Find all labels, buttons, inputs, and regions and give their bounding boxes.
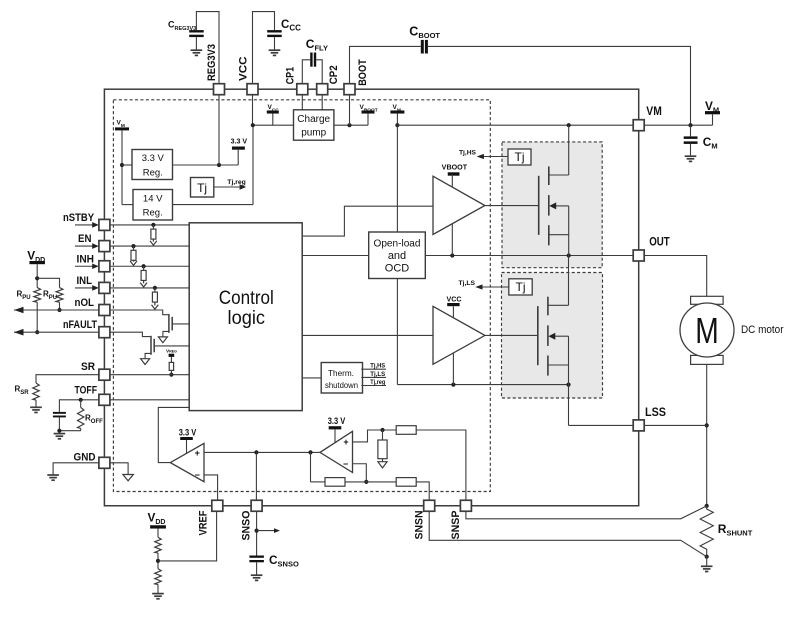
svg-text:VM: VM bbox=[646, 105, 662, 118]
svg-text:Reg.: Reg. bbox=[143, 168, 163, 179]
svg-text:Tj,LS: Tj,LS bbox=[459, 280, 476, 287]
svg-text:Tj: Tj bbox=[197, 181, 207, 195]
svg-text:SNSP: SNSP bbox=[450, 510, 462, 540]
svg-text:OCD: OCD bbox=[385, 263, 410, 275]
svg-text:3.3 V: 3.3 V bbox=[179, 427, 197, 437]
svg-text:M: M bbox=[695, 310, 719, 351]
svg-text:GND: GND bbox=[74, 451, 96, 463]
svg-text:Charge: Charge bbox=[297, 114, 330, 125]
svg-text:pump: pump bbox=[301, 128, 326, 139]
svg-text:Tj,HS: Tj,HS bbox=[370, 363, 385, 370]
svg-text:+: + bbox=[343, 437, 348, 447]
svg-text:VCC: VCC bbox=[237, 57, 249, 81]
svg-text:LSS: LSS bbox=[645, 406, 666, 419]
svg-text:CP1: CP1 bbox=[285, 67, 297, 85]
svg-text:Tj: Tj bbox=[516, 280, 526, 294]
svg-text:nOL: nOL bbox=[75, 297, 95, 309]
svg-text:REG3V3: REG3V3 bbox=[206, 44, 218, 81]
svg-text:Control: Control bbox=[219, 288, 274, 309]
svg-text:VCC: VCC bbox=[447, 297, 462, 304]
svg-text:SR: SR bbox=[81, 361, 95, 373]
svg-text:−: − bbox=[195, 470, 200, 480]
svg-text:3.3 V: 3.3 V bbox=[231, 137, 248, 146]
svg-text:14 V: 14 V bbox=[143, 194, 163, 205]
svg-text:INL: INL bbox=[77, 275, 93, 287]
svg-text:TOFF: TOFF bbox=[75, 385, 98, 397]
svg-text:nFAULT: nFAULT bbox=[63, 319, 97, 331]
svg-text:3.3 V: 3.3 V bbox=[142, 153, 165, 164]
svg-text:INH: INH bbox=[77, 253, 95, 265]
svg-text:+: + bbox=[195, 448, 200, 458]
svg-text:BOOT: BOOT bbox=[357, 59, 369, 86]
svg-text:Tj,LS: Tj,LS bbox=[370, 371, 385, 378]
svg-text:and: and bbox=[388, 250, 406, 262]
svg-text:EN: EN bbox=[78, 233, 92, 245]
svg-text:shutdown: shutdown bbox=[325, 381, 358, 390]
svg-text:Tj,HS: Tj,HS bbox=[459, 149, 476, 156]
svg-text:CP2: CP2 bbox=[328, 65, 340, 84]
svg-text:−: − bbox=[343, 459, 348, 469]
svg-text:Therm.: Therm. bbox=[328, 369, 354, 378]
svg-text:VREF: VREF bbox=[197, 510, 209, 535]
svg-text:Tj,reg: Tj,reg bbox=[370, 379, 385, 386]
svg-text:VBOOT: VBOOT bbox=[442, 164, 468, 171]
svg-text:DC motor: DC motor bbox=[741, 324, 784, 336]
svg-text:nSTBY: nSTBY bbox=[63, 212, 95, 224]
svg-text:Tj: Tj bbox=[515, 150, 525, 164]
svg-text:SNSN: SNSN bbox=[413, 511, 425, 540]
svg-text:Open-load: Open-load bbox=[374, 239, 421, 250]
svg-text:Tj,reg: Tj,reg bbox=[227, 179, 246, 186]
svg-text:3.3 V: 3.3 V bbox=[328, 416, 346, 426]
svg-text:Reg.: Reg. bbox=[143, 208, 163, 219]
svg-text:OUT: OUT bbox=[649, 236, 670, 249]
svg-text:logic: logic bbox=[228, 308, 266, 329]
svg-text:SNSO: SNSO bbox=[241, 510, 253, 540]
